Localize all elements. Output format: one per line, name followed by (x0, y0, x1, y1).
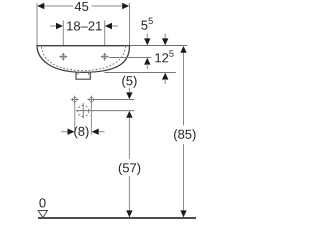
fixing cross left (71, 96, 79, 104)
fixing cross right (87, 96, 95, 104)
extension line left of dim (8) (74, 104, 76, 135)
line D fixing hole level (95, 99, 134, 101)
dim 12.5 (155, 34, 173, 85)
washbasin inner rim (dashed) (42, 47, 126, 71)
dim (85) top arrow (180, 46, 186, 53)
dim 45 (37, 2, 129, 11)
tap hole cross left (59, 53, 67, 61)
line C basin bottom level (105, 72, 177, 74)
dim (57) bottom arrow (126, 210, 132, 217)
water outlet circle (dashed) (78, 105, 89, 116)
extension line right of dim (8) (90, 104, 92, 135)
extension line right of dim 45 (129, 3, 131, 46)
extension line left of dim 18-21 (62, 21, 64, 57)
dim (57) vertical line (128, 118, 130, 160)
tap hole cross right (101, 53, 109, 61)
dim (85) label (174, 129, 196, 141)
outlet centerline vertical (82, 103, 84, 119)
dim (57) label (119, 163, 141, 175)
outlet centerline horizontal / line E outlet level (76, 110, 134, 112)
drain spigot (76, 72, 90, 80)
line A rim level (130, 45, 188, 47)
dim (85) bottom arrow (180, 210, 186, 217)
washbasin outer outline (37, 46, 130, 73)
extension line left of dim 45 (36, 3, 38, 46)
dim 5.5 (141, 18, 153, 69)
dim (8) (61, 126, 105, 138)
extension line right of dim 18-21 (104, 21, 106, 57)
datum level triangle (38, 211, 47, 218)
dim (5) (122, 76, 136, 118)
dim (85) vertical line (183, 52, 185, 126)
line B tap hole level (109, 57, 151, 59)
floor line (38, 217, 196, 219)
datum 0 label (39, 198, 45, 207)
dim 18-21 (50, 21, 118, 30)
